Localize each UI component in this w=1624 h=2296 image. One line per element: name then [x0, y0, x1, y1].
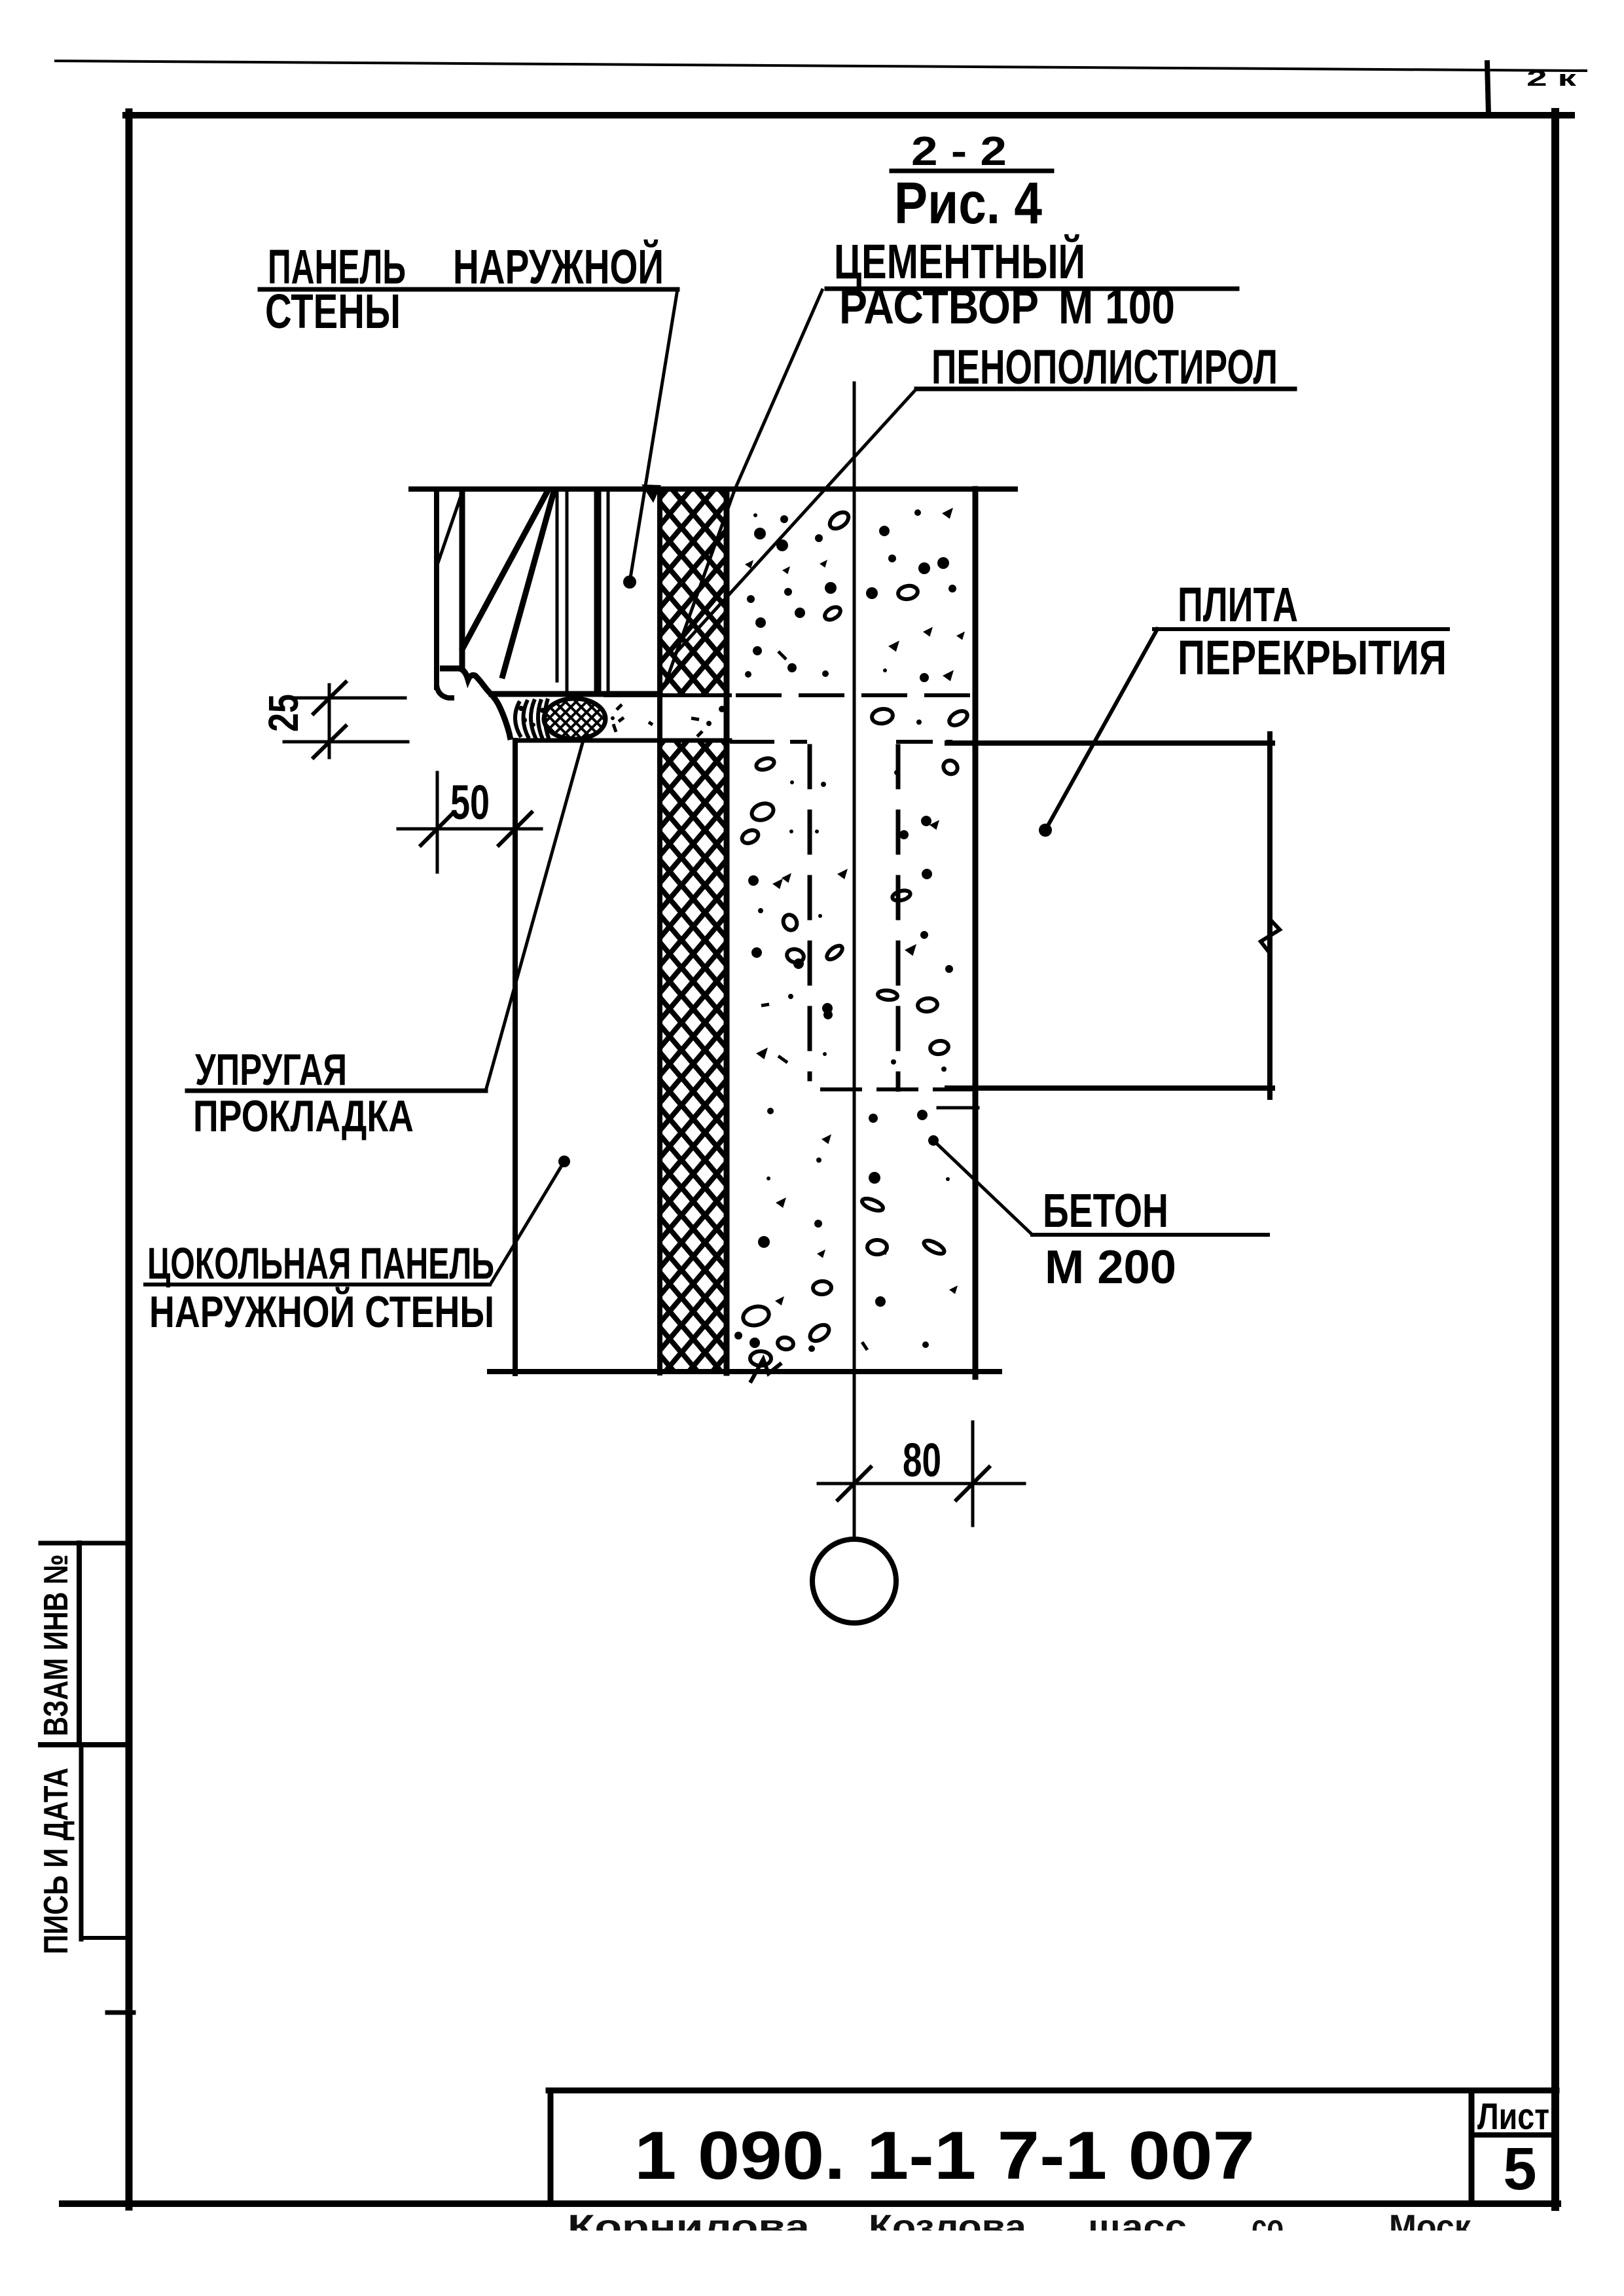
- leader dot: панель наружной стены: [623, 575, 636, 589]
- wall: zigzag break symbol on bottom line: [750, 1359, 782, 1383]
- svg-text:ПЕНОПОЛИСТИРОЛ: ПЕНОПОЛИСТИРОЛ: [931, 340, 1278, 394]
- upper panel: hatch diagonal C (outer layer): [438, 494, 461, 563]
- dim 50: dimension line: [398, 828, 541, 831]
- label underline: панель наружной: [260, 287, 677, 292]
- hidden slab end dashed vertical (right): [896, 746, 901, 1089]
- leader line: панель наружной стены: [630, 289, 677, 582]
- label underline: бетон М200: [1032, 1233, 1268, 1237]
- upper panel: hatch diagonal A: [463, 492, 547, 648]
- dim 25: tick lower: [314, 726, 346, 757]
- svg-text:2 - 2: 2 - 2: [911, 129, 1007, 174]
- svg-text:РАСТВОР: РАСТВОР: [839, 280, 1039, 334]
- insulation (пенополистирол) upper section crosshatch: [662, 492, 724, 694]
- svg-text:80: 80: [903, 1434, 941, 1487]
- svg-text:СТЕНЫ: СТЕНЫ: [265, 284, 401, 338]
- mortar joint: top line: [605, 693, 730, 697]
- upper panel: inner vertical 1: [556, 492, 559, 681]
- svg-text:Рис. 4: Рис. 4: [894, 171, 1042, 236]
- frame: left border line: [126, 112, 133, 2207]
- label underline: цементный раствор: [827, 287, 1237, 291]
- dim 80: tick right: [956, 1467, 989, 1500]
- leader line: упругая прокладка: [486, 740, 583, 1091]
- dim 25: lower extension line: [284, 740, 408, 744]
- svg-text:М 200: М 200: [1045, 1241, 1176, 1294]
- axis circle (reference bubble): [812, 1539, 896, 1623]
- label underline: цокольная панель: [145, 1283, 490, 1286]
- floor slab: right end line: [1267, 734, 1272, 1097]
- upper panel: outer face: [434, 492, 439, 687]
- dim 80: right extension line: [971, 1422, 975, 1525]
- leader line: цементный раствор (two segments): [664, 289, 823, 686]
- leader line: бетон М200: [933, 1140, 1032, 1235]
- dim 80: dimension line: [818, 1482, 1024, 1485]
- svg-text:ПЛИТА: ПЛИТА: [1178, 577, 1298, 632]
- sidebar: left line of lower cell: [79, 1745, 84, 1939]
- lower panel: outer face: [513, 740, 518, 1374]
- frame: bottom border line: [62, 2200, 1558, 2207]
- svg-text:ЦОКОЛЬНАЯ ПАНЕЛЬ: ЦОКОЛЬНАЯ ПАНЕЛЬ: [147, 1239, 494, 1288]
- dim 25: tick upper: [314, 682, 346, 714]
- upper panel: second vertical (outer layer): [460, 492, 465, 668]
- upper panel: bottom line over mortar joint: [492, 691, 660, 697]
- scan: white cut-off of signature row bottoms: [550, 2231, 1479, 2274]
- wall: top edge line: [411, 486, 1015, 492]
- leader line: плита перекрытия: [1045, 629, 1157, 830]
- svg-text:Лист: Лист: [1477, 2096, 1549, 2138]
- floor slab: break mark on right end: [1261, 919, 1280, 953]
- dim 50: tick left: [421, 812, 454, 845]
- title block: Лист cell left line: [1469, 2090, 1475, 2204]
- dim 25: dimension line (vertical): [328, 685, 331, 757]
- svg-text:2 к: 2 к: [1526, 66, 1578, 91]
- svg-text:ПРОКЛАДКА: ПРОКЛАДКА: [193, 1091, 414, 1141]
- dim 50: left extension line: [436, 773, 439, 872]
- axis line (vertical centerline): [853, 383, 856, 1539]
- svg-text:М 100: М 100: [1058, 280, 1175, 334]
- scan: short vertical tick at top right: [1487, 63, 1489, 115]
- svg-text:ВЗАМ ИНВ №: ВЗАМ ИНВ №: [37, 1554, 75, 1736]
- dim 50: tick right: [499, 812, 532, 845]
- upper panel: outer face foot curve: [437, 685, 454, 698]
- hidden joint bottom dashed line (left): [732, 740, 805, 744]
- upper panel: inner vertical 4: [607, 492, 610, 693]
- title block: left line: [548, 2090, 554, 2204]
- svg-text:НАРУЖНОЙ: НАРУЖНОЙ: [453, 239, 664, 294]
- insulation: right edge line: [724, 492, 730, 1373]
- svg-text:5: 5: [1503, 2136, 1536, 2202]
- floor slab: top line: [947, 740, 1272, 746]
- frame: top border line: [126, 112, 1572, 118]
- svg-text:БЕТОН: БЕТОН: [1043, 1185, 1168, 1237]
- wall: bottom break line: [490, 1369, 1000, 1374]
- label underline/shelf: плита перекрытия: [1154, 627, 1448, 631]
- hidden joint top dashed line: [738, 693, 973, 697]
- svg-text:УПРУГАЯ: УПРУГАЯ: [195, 1045, 347, 1095]
- upper panel: inner vertical 3 (thick): [594, 492, 602, 693]
- scan: thin sheet-edge line across top: [56, 61, 1586, 71]
- floor slab: bottom line: [947, 1085, 1272, 1091]
- upper panel: hatch diagonal B: [503, 492, 554, 676]
- label underline: пенополистирол: [916, 387, 1295, 392]
- label underline: упругая прокладка: [187, 1089, 486, 1093]
- leader line: пенополистирол: [674, 389, 916, 655]
- concrete aggregate speckle texture: [518, 508, 969, 1366]
- sidebar: small tick crossing frame: [107, 2011, 134, 2015]
- hidden slab bottom dashed line: [822, 1087, 973, 1091]
- hidden slab end dashed vertical (left): [808, 746, 812, 1079]
- sidebar: bottom line of lower cell: [81, 1936, 127, 1940]
- svg-text:50: 50: [450, 775, 490, 829]
- upper panel: inner vertical 2: [566, 492, 569, 691]
- section title: underline of 2-2: [892, 169, 1052, 173]
- sidebar: left line of upper cell: [77, 1543, 82, 1745]
- title block: Лист cell divider: [1471, 2132, 1555, 2138]
- dim 80: tick left: [838, 1467, 871, 1500]
- title block: top line: [549, 2088, 1557, 2094]
- insulation: left edge line: [657, 492, 662, 1373]
- frame: right border line: [1551, 112, 1559, 2207]
- svg-text:ПИСЬ И ДАТА: ПИСЬ И ДАТА: [37, 1768, 75, 1954]
- sidebar: divider line between cells: [41, 1742, 127, 1747]
- gasket wedge: compressed layers arcs: [515, 699, 549, 740]
- leader line: цокольная панель: [491, 1161, 564, 1283]
- wall: blotch/arrowhead at insulation top-left: [641, 484, 661, 503]
- hidden slab top dashed line (right): [898, 740, 950, 744]
- leader dot: цокольная панель: [558, 1156, 570, 1167]
- svg-text:1 090. 1-1 7-1 007: 1 090. 1-1 7-1 007: [634, 2118, 1255, 2194]
- svg-text:25: 25: [260, 694, 307, 732]
- leader dot: бетон М200: [928, 1135, 939, 1146]
- svg-text:НАРУЖНОЙ СТЕНЫ: НАРУЖНОЙ СТЕНЫ: [149, 1286, 494, 1337]
- insulation lower section crosshatch: [662, 740, 724, 1370]
- wall: right (inner) face: [973, 489, 979, 1377]
- elastic gasket (упругая прокладка) ellipse with crosshatch: [544, 699, 605, 739]
- leader dot: плита перекрытия: [1039, 824, 1052, 837]
- upper panel: bottom drip (ogee) profile with nose: [440, 668, 511, 740]
- sidebar: top line of upper cell: [41, 1541, 127, 1546]
- mortar joint: bottom line / lower panel top: [515, 738, 730, 743]
- svg-text:ПЕРЕКРЫТИЯ: ПЕРЕКРЫТИЯ: [1178, 630, 1447, 685]
- hidden line: short dash below slab bottom: [938, 1106, 978, 1110]
- dim 25: upper extension line: [284, 697, 405, 700]
